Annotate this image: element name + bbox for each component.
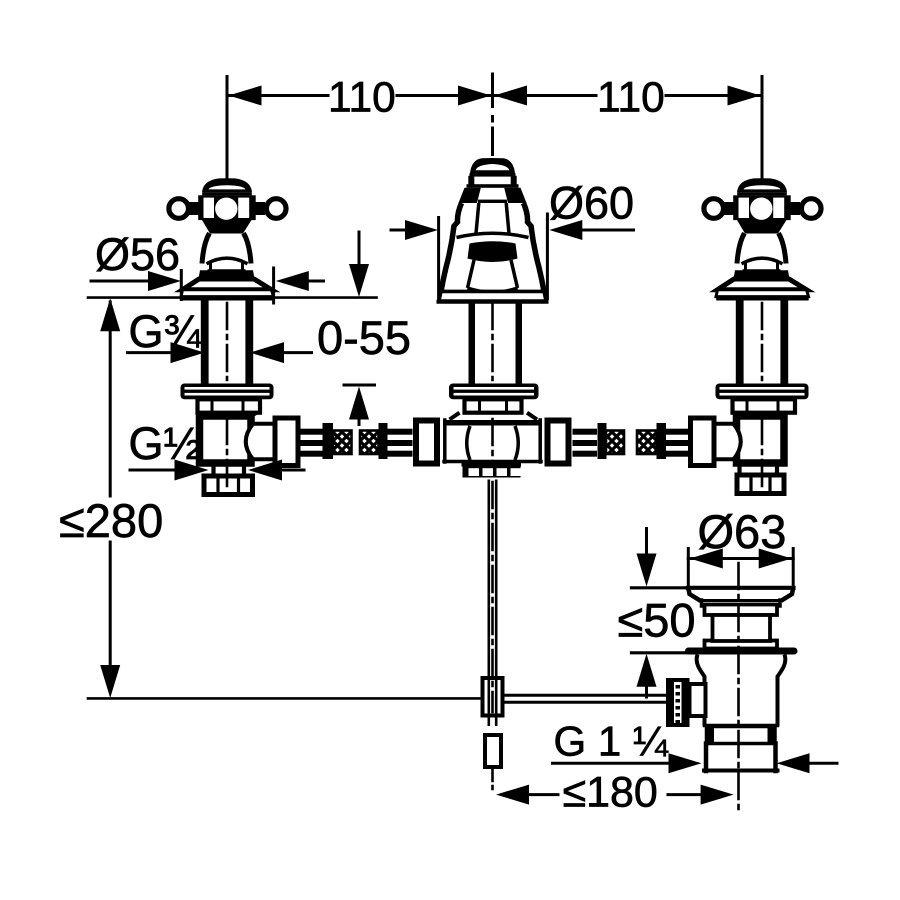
svg-text:G½: G½ bbox=[129, 418, 202, 469]
svg-text:≤280: ≤280 bbox=[59, 494, 163, 547]
svg-text:Ø63: Ø63 bbox=[698, 505, 787, 558]
svg-text:Ø60: Ø60 bbox=[549, 178, 634, 229]
svg-text:G 1 ¼: G 1 ¼ bbox=[554, 718, 669, 765]
svg-text:0-55: 0-55 bbox=[317, 311, 411, 364]
svg-text:Ø56: Ø56 bbox=[95, 229, 180, 280]
svg-text:≤50: ≤50 bbox=[618, 594, 696, 647]
svg-text:≤180: ≤180 bbox=[563, 769, 658, 817]
svg-text:110: 110 bbox=[597, 75, 665, 122]
svg-text:110: 110 bbox=[328, 75, 396, 122]
